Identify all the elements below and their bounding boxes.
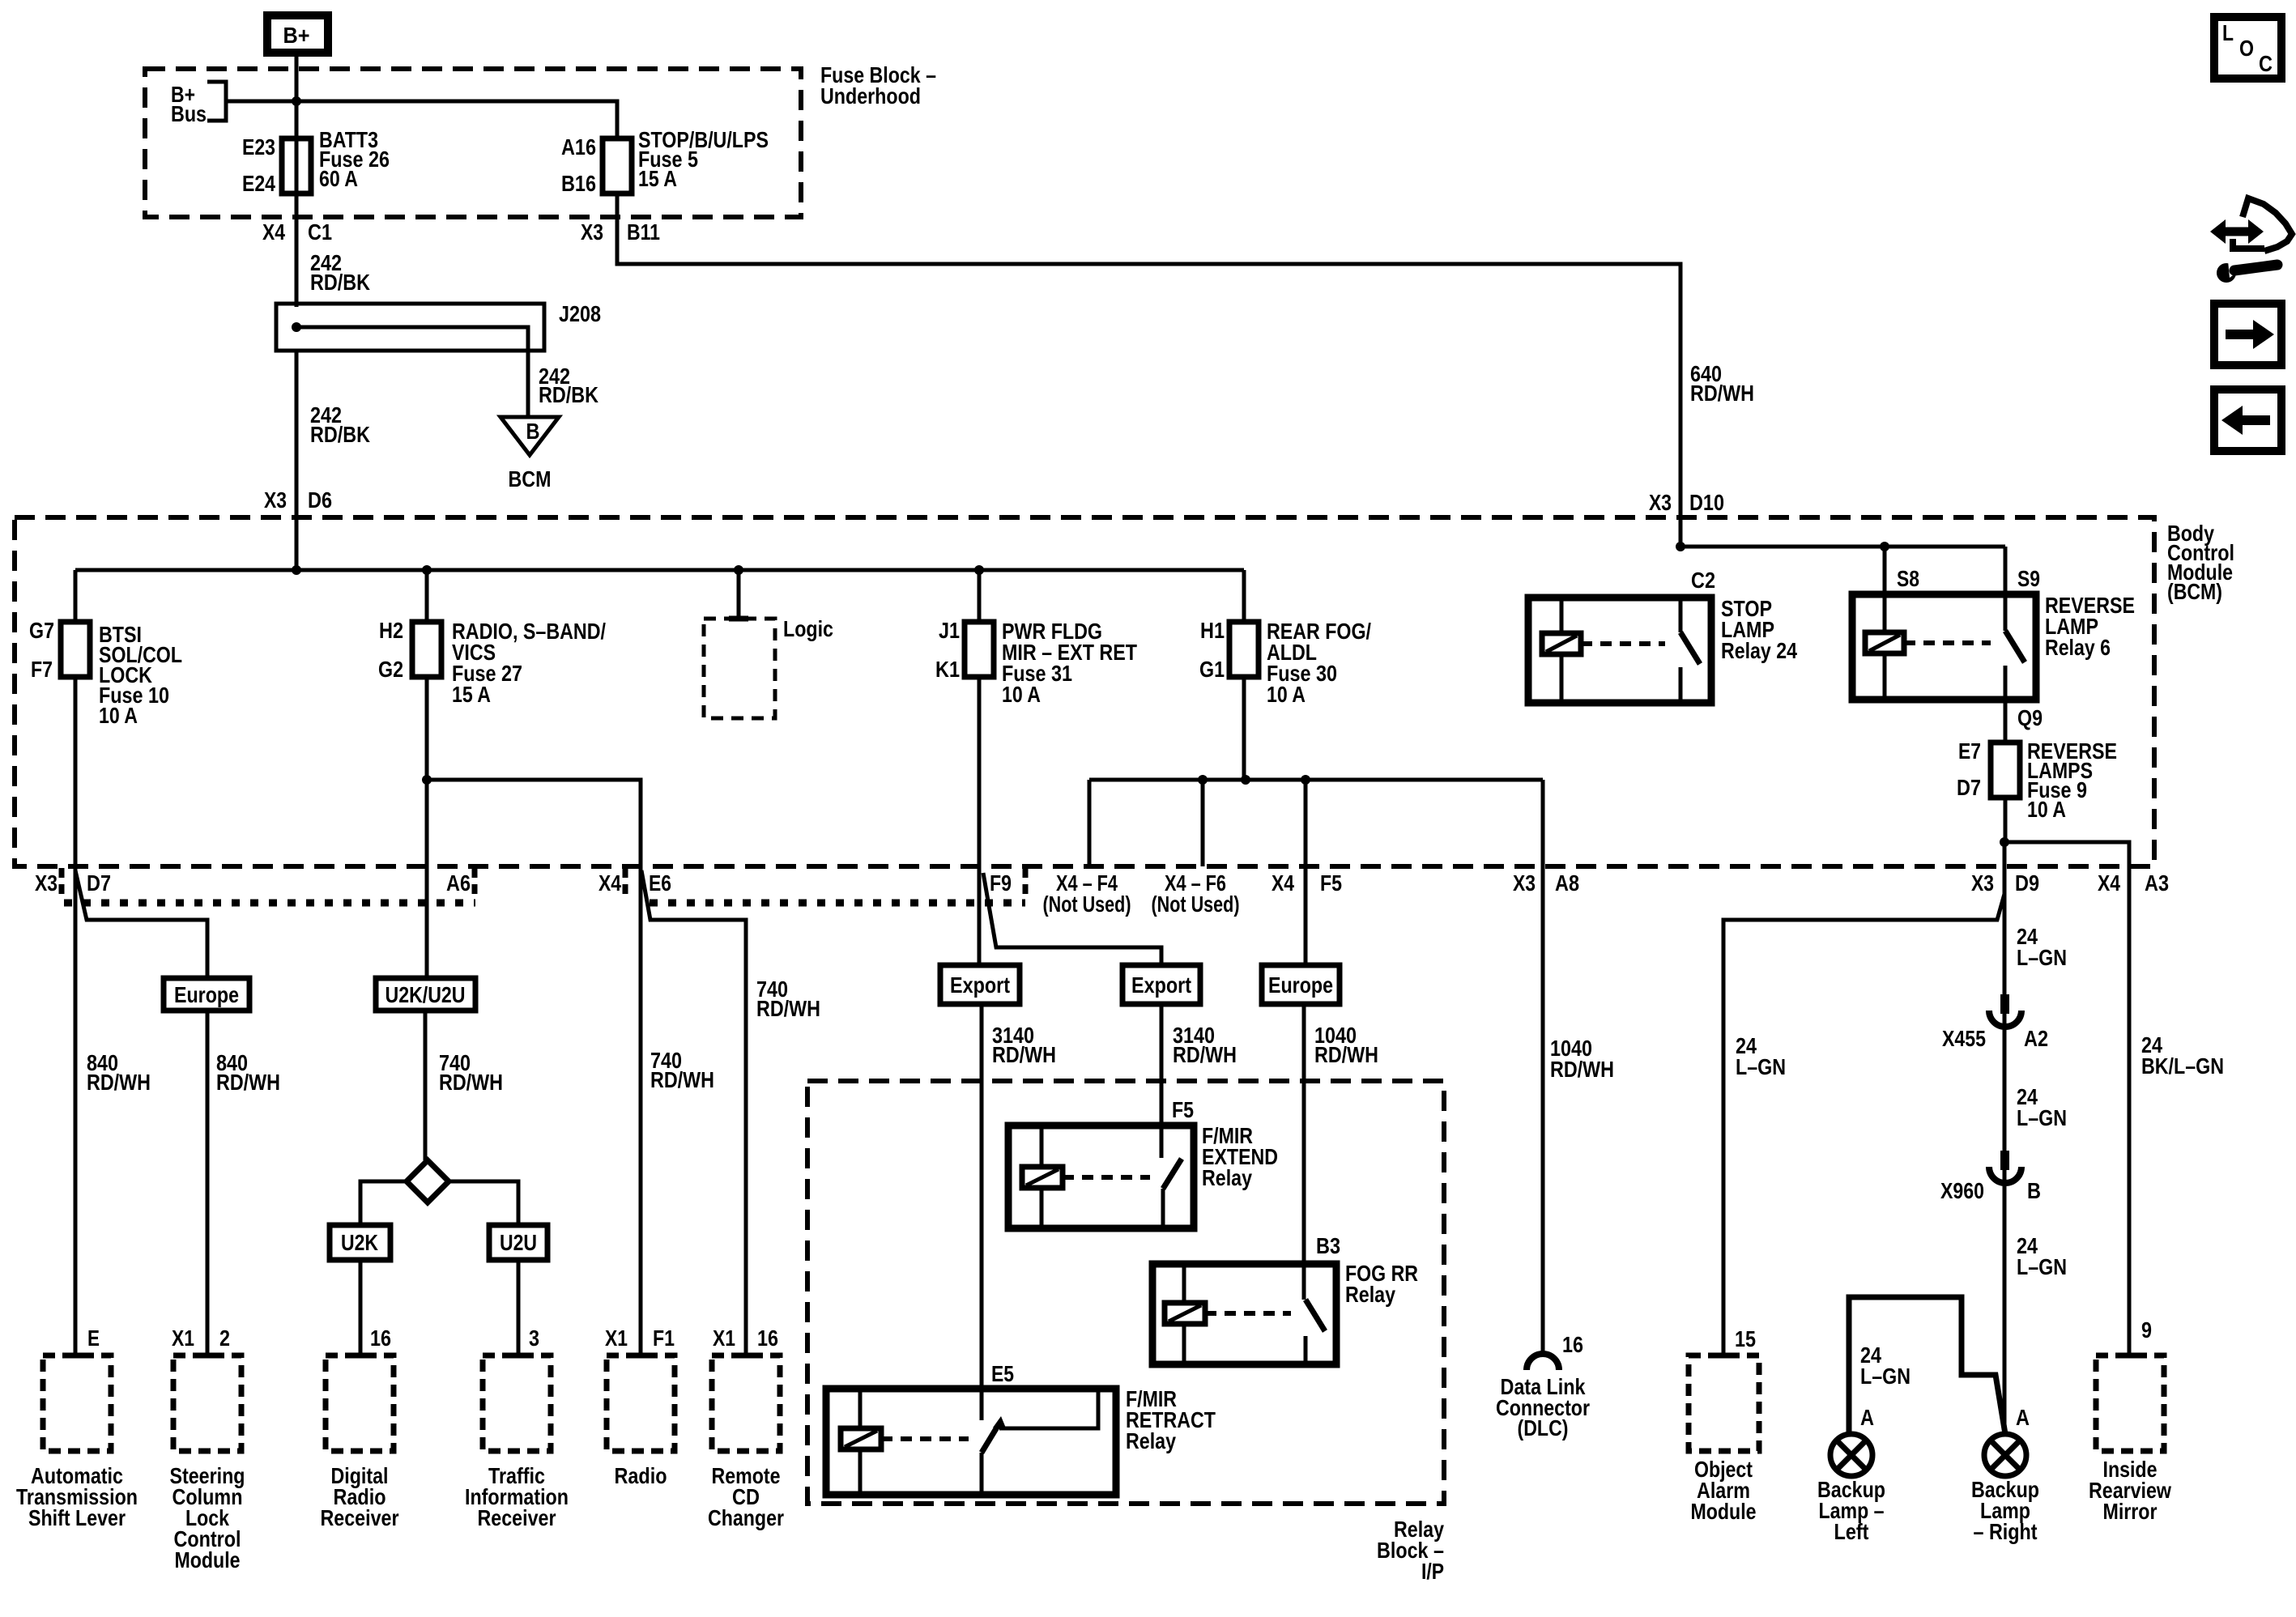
- wire 640 RD/WH from B11 to D10: [617, 194, 1680, 547]
- LOC legend box: [2214, 17, 2281, 79]
- pins X4 E6: [598, 870, 671, 896]
- svg-text:10 A: 10 A: [1002, 682, 1041, 707]
- svg-text:Receiver: Receiver: [478, 1505, 556, 1530]
- svg-text:F9: F9: [990, 870, 1012, 896]
- svg-text:15: 15: [1735, 1326, 1756, 1351]
- svg-text:A8: A8: [1555, 870, 1579, 896]
- fuse BTSI SOL/COL LOCK Fuse 10: [29, 570, 182, 728]
- splice X960: [1940, 1151, 2041, 1203]
- pins X1 16: [713, 1326, 778, 1351]
- wire diamond to U2U: [449, 1181, 518, 1225]
- wire BCM relay feed bus: [1676, 542, 2005, 551]
- wire U2U to traffic info receiver: [517, 1260, 521, 1355]
- svg-text:F5: F5: [1172, 1097, 1194, 1122]
- svg-text:A: A: [2016, 1405, 2030, 1430]
- wire D6 feed into BCM: [295, 351, 299, 570]
- wire B+ bus to fuses: [227, 96, 617, 138]
- back arrow legend box: [2214, 389, 2281, 451]
- svg-text:Relay 24: Relay 24: [1721, 638, 1797, 663]
- Steering Column Lock Control Module box: [170, 1355, 245, 1572]
- svg-text:G7: G7: [29, 618, 54, 643]
- wire fuse31 to F9 and Export relays: [979, 677, 1161, 965]
- label 24 L-GN left lamp: [1860, 1343, 1910, 1389]
- svg-text:X960: X960: [1940, 1178, 1984, 1203]
- connector strip dotted lines: [62, 868, 1025, 903]
- Object Alarm Module box: [1689, 1355, 1759, 1524]
- svg-text:16: 16: [370, 1326, 391, 1351]
- svg-text:F5: F5: [1320, 870, 1342, 896]
- option box U2K: [330, 1225, 390, 1260]
- svg-text:D7: D7: [1957, 775, 1981, 800]
- svg-text:K1: K1: [935, 657, 960, 682]
- Logic dashed box: [704, 570, 833, 718]
- label 1040 RD/WH dlc: [1550, 1036, 1614, 1082]
- svg-text:U2U: U2U: [500, 1230, 537, 1255]
- svg-text:3: 3: [529, 1326, 539, 1351]
- pins X3 D9: [1971, 870, 2039, 896]
- pin X4 - F4 (Not Used): [1043, 870, 1131, 917]
- svg-text:Left: Left: [1834, 1519, 1869, 1544]
- svg-text:L–GN: L–GN: [1736, 1054, 1786, 1079]
- svg-text:Export: Export: [1131, 972, 1191, 998]
- svg-text:RD/WH: RD/WH: [650, 1067, 714, 1092]
- label Fuse Block - Underhood: [820, 62, 936, 109]
- option box Export 2: [1122, 965, 1200, 1004]
- svg-text:2: 2: [219, 1326, 230, 1351]
- svg-text:E24: E24: [242, 171, 275, 196]
- svg-text:Radio: Radio: [615, 1463, 667, 1488]
- svg-text:A16: A16: [561, 134, 596, 160]
- svg-text:Relay: Relay: [1126, 1428, 1176, 1453]
- Inside Rearview Mirror box: [2089, 1355, 2171, 1524]
- svg-text:RD/BK: RD/BK: [310, 422, 370, 447]
- wire fuse10 to D7 and shift lever: [74, 677, 78, 1355]
- label Body Control Module (BCM): [2167, 521, 2234, 604]
- svg-text:RD/WH: RD/WH: [992, 1042, 1056, 1067]
- pins X1 2: [172, 1326, 230, 1351]
- svg-text:C1: C1: [308, 219, 332, 245]
- svg-text:Relay 6: Relay 6: [2045, 635, 2111, 660]
- option box U2U: [489, 1225, 547, 1260]
- wire branch to object alarm module: [1723, 894, 2004, 1355]
- svg-text:I/P: I/P: [1421, 1559, 1444, 1584]
- svg-text:A: A: [1860, 1405, 1874, 1430]
- svg-text:Underhood: Underhood: [820, 83, 921, 109]
- wire fuse9 to D9 junction: [2000, 798, 2009, 847]
- wire radio branch E6: [422, 775, 746, 1355]
- svg-text:RD/WH: RD/WH: [1690, 381, 1754, 406]
- svg-text:G2: G2: [378, 657, 403, 682]
- svg-text:B+: B+: [283, 23, 310, 48]
- fuse REVERSE LAMPS Fuse 9: [1957, 738, 2117, 822]
- option box U2K/U2U: [376, 978, 475, 1011]
- label 24 L-GN object alarm: [1736, 1033, 1786, 1079]
- pins X3 D6: [264, 487, 332, 513]
- label 840 RD/WH left: [87, 1050, 151, 1095]
- svg-text:RD/WH: RD/WH: [216, 1070, 280, 1095]
- svg-text:10 A: 10 A: [99, 703, 138, 728]
- svg-text:Mirror: Mirror: [2103, 1499, 2158, 1524]
- svg-text:E6: E6: [649, 870, 671, 896]
- svg-text:60 A: 60 A: [319, 166, 358, 191]
- svg-text:Logic: Logic: [783, 616, 833, 641]
- svg-text:Receiver: Receiver: [321, 1505, 399, 1530]
- svg-text:B11: B11: [627, 219, 660, 245]
- option box Europe 2: [1262, 965, 1340, 1004]
- svg-text:Module: Module: [1691, 1499, 1757, 1524]
- B+ power symbol: [267, 15, 328, 53]
- svg-text:L–GN: L–GN: [2017, 945, 2067, 970]
- wire fuse30 down to lower bus: [1242, 677, 1246, 780]
- wire BCM main bus: [75, 565, 1244, 575]
- svg-text:X1: X1: [713, 1326, 735, 1351]
- label 1040 RD/WH: [1314, 1023, 1378, 1067]
- svg-text:RD/WH: RD/WH: [439, 1070, 503, 1095]
- svg-text:E7: E7: [1958, 738, 1981, 764]
- label 740 RD/WH remote cd: [756, 977, 820, 1021]
- fuse RADIO S-BAND/VICS Fuse 27: [378, 570, 606, 707]
- svg-text:X3: X3: [264, 487, 287, 513]
- Fuse Block - Underhood dashed box: [145, 69, 801, 217]
- svg-text:10 A: 10 A: [1267, 682, 1306, 707]
- label 242 RD/BK upper: [310, 250, 370, 295]
- svg-text:Export: Export: [950, 972, 1010, 998]
- label 640 RD/WH: [1690, 361, 1754, 406]
- label 3140 RD/WH right: [1173, 1023, 1237, 1067]
- svg-text:X3: X3: [1649, 490, 1672, 515]
- wire stub X4-F6: [1201, 780, 1205, 866]
- label 242 RD/BK lower left: [310, 402, 370, 447]
- svg-text:E23: E23: [242, 134, 275, 160]
- svg-text:E: E: [87, 1326, 100, 1351]
- svg-text:H2: H2: [379, 618, 403, 643]
- svg-text:Relay: Relay: [1345, 1282, 1395, 1307]
- node B+ Bus: [171, 82, 226, 126]
- wire fuse27 to A6 and U2K/U2U: [425, 677, 429, 978]
- svg-text:X1: X1: [172, 1326, 194, 1351]
- splice X455: [1942, 994, 2048, 1051]
- svg-text:D7: D7: [87, 870, 111, 896]
- fuse STOP/B/U/LPS Fuse 5: [561, 127, 769, 196]
- label 24 L-GN lower: [2017, 1233, 2067, 1279]
- svg-text:(BCM): (BCM): [2167, 579, 2222, 604]
- wire B+ feed down to J208: [295, 57, 299, 307]
- wire diamond to U2K: [360, 1181, 407, 1225]
- svg-text:Europe: Europe: [1268, 972, 1333, 998]
- svg-text:X4: X4: [2098, 870, 2120, 896]
- svg-text:L–GN: L–GN: [2017, 1254, 2067, 1279]
- splice diamond: [407, 1160, 449, 1202]
- splice pack J208: [276, 301, 601, 415]
- pin X4 - F6 (Not Used): [1152, 870, 1240, 917]
- svg-text:Europe: Europe: [174, 982, 239, 1007]
- pins X4 F5: [1272, 870, 1342, 896]
- svg-text:9: 9: [2141, 1317, 2152, 1343]
- wire backup lamp left branch: [1849, 1297, 2005, 1434]
- svg-text:RD/WH: RD/WH: [1550, 1057, 1614, 1082]
- svg-text:X3: X3: [35, 870, 58, 896]
- label 740 RD/WH center: [439, 1050, 503, 1095]
- pins X1 F1: [605, 1326, 675, 1351]
- svg-text:BCM: BCM: [509, 466, 552, 491]
- pins X3 D7: [35, 870, 111, 896]
- car service icon: [2210, 198, 2292, 283]
- svg-text:15 A: 15 A: [638, 166, 677, 191]
- svg-text:10 A: 10 A: [2027, 797, 2066, 822]
- relay FOG RR: [1152, 1261, 1418, 1364]
- pins X3 D10: [1649, 490, 1724, 515]
- wire stub X4-F4: [1088, 780, 1092, 866]
- svg-text:S9: S9: [2017, 566, 2040, 591]
- label 840 RD/WH right: [216, 1050, 280, 1095]
- pins X4 C1: [262, 219, 332, 245]
- wire Europe2 to fog relay: [1302, 1004, 1306, 1300]
- svg-text:X3: X3: [1513, 870, 1536, 896]
- label 3140 RD/WH left: [992, 1023, 1056, 1067]
- svg-text:RD/WH: RD/WH: [1173, 1042, 1237, 1067]
- svg-text:C2: C2: [1691, 568, 1715, 593]
- label 24 L-GN upper: [2017, 924, 2067, 970]
- fuse BATT3 Fuse 26: [242, 127, 390, 196]
- svg-text:U2K: U2K: [341, 1230, 378, 1255]
- svg-text:X455: X455: [1942, 1026, 1986, 1051]
- relay REVERSE LAMP Relay 6: [1852, 547, 2135, 700]
- wire BCM lower bus: [1089, 775, 1543, 785]
- svg-text:(DLC): (DLC): [1518, 1415, 1569, 1440]
- wire Export2 to extend relay: [1160, 1004, 1164, 1158]
- wire Europe to steering column module: [206, 1011, 210, 1355]
- option box Export 1: [940, 965, 1020, 1004]
- svg-text:L–GN: L–GN: [1860, 1364, 1910, 1389]
- svg-text:RD/WH: RD/WH: [756, 996, 820, 1021]
- wire U2K/U2U to diamond: [424, 1011, 428, 1160]
- Digital Radio Receiver box: [321, 1355, 399, 1530]
- fuse PWR FLDG MIR-EXT RET Fuse 31: [935, 570, 1137, 707]
- wire branch to A3 mirror: [2004, 842, 2129, 1355]
- svg-text:(Not Used): (Not Used): [1043, 891, 1131, 917]
- svg-text:X4: X4: [1272, 870, 1294, 896]
- Traffic Information Receiver box: [465, 1355, 569, 1530]
- svg-text:Changer: Changer: [708, 1505, 784, 1530]
- svg-text:Relay: Relay: [1202, 1165, 1252, 1190]
- svg-text:X3: X3: [581, 219, 603, 245]
- svg-text:RD/WH: RD/WH: [1314, 1042, 1378, 1067]
- label 242 RD/BK right: [539, 364, 598, 407]
- svg-text:F1: F1: [653, 1326, 675, 1351]
- label 24 BK/L-GN: [2141, 1032, 2224, 1079]
- svg-text:D6: D6: [308, 487, 332, 513]
- svg-text:L: L: [2222, 20, 2234, 45]
- svg-text:Bus: Bus: [171, 101, 207, 126]
- svg-text:– Right: – Right: [1974, 1519, 2038, 1544]
- svg-text:RD/BK: RD/BK: [310, 270, 370, 295]
- svg-text:O: O: [2239, 36, 2254, 61]
- svg-text:D10: D10: [1689, 490, 1724, 515]
- Data Link Connector half circle: [1496, 1354, 1590, 1440]
- svg-text:A2: A2: [2024, 1026, 2048, 1051]
- svg-text:B: B: [2027, 1178, 2041, 1203]
- svg-text:C: C: [2259, 51, 2273, 76]
- svg-text:16: 16: [757, 1326, 778, 1351]
- svg-text:X3: X3: [1971, 870, 1994, 896]
- wire A8 branch to DLC: [1541, 780, 1545, 1354]
- option box Europe: [164, 978, 249, 1011]
- svg-text:Shift Lever: Shift Lever: [28, 1505, 126, 1530]
- relay F/MIR EXTEND: [1008, 1123, 1278, 1228]
- forward arrow legend box: [2214, 304, 2281, 365]
- wire relay6 output Q9: [2005, 666, 2043, 743]
- wire Export1 to retract relay: [980, 1004, 984, 1420]
- svg-text:A3: A3: [2145, 870, 2169, 896]
- Radio box: [607, 1355, 675, 1488]
- svg-text:X4: X4: [598, 870, 621, 896]
- svg-text:D9: D9: [2015, 870, 2039, 896]
- svg-text:B3: B3: [1316, 1233, 1340, 1258]
- svg-text:X1: X1: [605, 1326, 628, 1351]
- svg-text:BK/L–GN: BK/L–GN: [2141, 1053, 2224, 1079]
- wire U2K to digital radio receiver: [359, 1260, 363, 1355]
- Remote CD Changer box: [708, 1355, 784, 1530]
- fuse REAR FOG/ALDL Fuse 30: [1199, 570, 1371, 707]
- svg-text:(Not Used): (Not Used): [1152, 891, 1240, 917]
- svg-text:RD/BK: RD/BK: [539, 382, 598, 407]
- relay F/MIR RETRACT: [826, 1386, 1216, 1495]
- svg-text:B16: B16: [561, 171, 596, 196]
- svg-text:X4: X4: [262, 219, 285, 245]
- svg-text:F7: F7: [31, 657, 53, 682]
- svg-text:J208: J208: [559, 301, 601, 326]
- svg-text:B: B: [526, 419, 540, 444]
- pins X3 A8: [1513, 870, 1579, 896]
- svg-text:J1: J1: [939, 618, 960, 643]
- pins X4 A3: [2098, 870, 2169, 896]
- wire D9 down to backup lamps: [2003, 842, 2007, 1434]
- lamp Backup Lamp Left: [1817, 1434, 1885, 1544]
- svg-text:Module: Module: [175, 1547, 241, 1572]
- pins X3 B11: [581, 219, 660, 245]
- lamp Backup Lamp Right: [1971, 1434, 2039, 1544]
- svg-text:Q9: Q9: [2017, 705, 2043, 730]
- wire F5 branch to Europe relay: [1304, 780, 1308, 965]
- svg-text:16: 16: [1562, 1332, 1583, 1357]
- svg-text:H1: H1: [1200, 618, 1225, 643]
- svg-text:S8: S8: [1897, 566, 1919, 591]
- svg-text:L–GN: L–GN: [2017, 1105, 2067, 1130]
- svg-text:U2K/U2U: U2K/U2U: [386, 982, 466, 1007]
- svg-text:G1: G1: [1199, 657, 1225, 682]
- relay STOP LAMP Relay 24: [1528, 568, 1797, 703]
- Body Control Module dashed box: [15, 517, 2154, 866]
- label 24 L-GN mid: [2017, 1084, 2067, 1130]
- ground B (BCM) triangle: [501, 417, 559, 491]
- label 740 RD/WH radio: [650, 1048, 714, 1092]
- svg-text:E5: E5: [991, 1361, 1014, 1386]
- svg-text:A6: A6: [446, 870, 471, 896]
- Relay Block - I/P dashed box: [807, 1081, 1444, 1584]
- svg-text:RD/WH: RD/WH: [87, 1070, 151, 1095]
- Automatic Transmission Shift Lever box: [16, 1355, 138, 1530]
- wire D7 branch to Europe: [75, 870, 207, 978]
- svg-text:15 A: 15 A: [452, 682, 491, 707]
